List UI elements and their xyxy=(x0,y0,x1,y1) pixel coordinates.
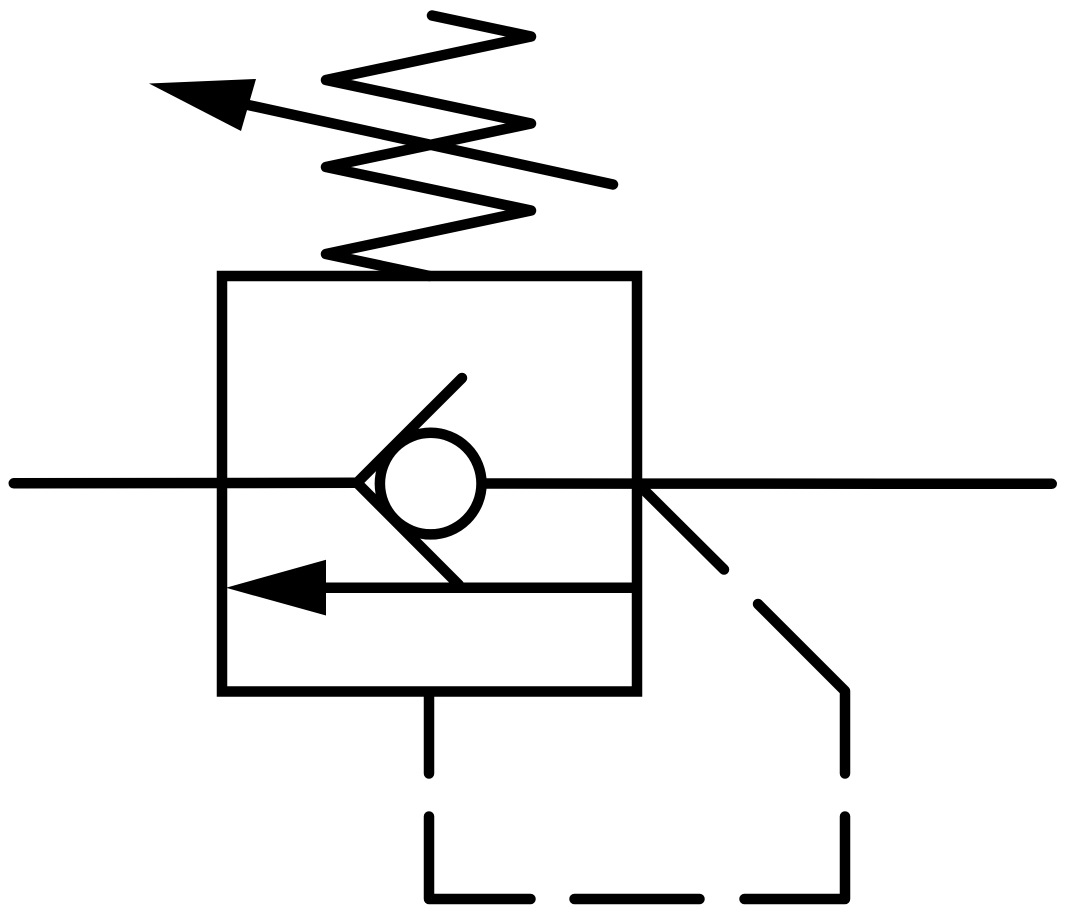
main flow line right (outlet port wire) xyxy=(486,478,1052,489)
spring (adjustable) xyxy=(326,16,531,277)
flow arrow shaft xyxy=(322,583,637,594)
check valve ball xyxy=(380,433,482,535)
pilot line dash 2 with elbow xyxy=(758,604,845,774)
check valve seat V xyxy=(357,378,462,585)
valve body envelope box xyxy=(222,276,637,692)
pilot line dash 1 (from node at box corner) xyxy=(639,485,724,570)
flow arrow head xyxy=(226,560,326,616)
pilot line dash 3 bottom-right corner xyxy=(745,817,846,900)
adjustment arrow head xyxy=(149,79,256,131)
pilot line dash 5 bottom-left corner xyxy=(429,817,531,900)
pilot line dash 4 bottom middle xyxy=(575,894,700,905)
drain line dash 6 (to box bottom) xyxy=(424,692,435,774)
adjustment arrow shaft xyxy=(248,105,613,185)
main flow line left (inlet port wire) xyxy=(14,478,357,489)
